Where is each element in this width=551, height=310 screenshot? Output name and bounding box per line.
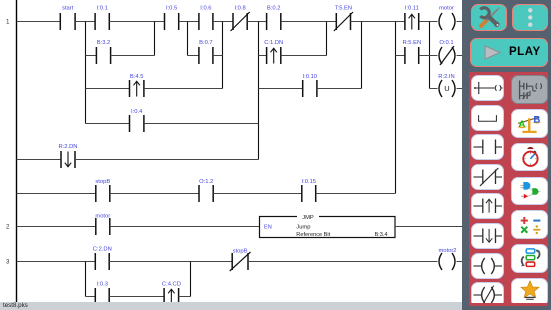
contact stopB rung3 (NC) (230, 252, 251, 271)
wire I:0.4 to riser x258 (144, 123, 259, 125)
contact R:2.DN (negative transition) (61, 151, 75, 168)
left power rail (16, 0, 18, 302)
wire C:1.DN to riser (281, 55, 327, 57)
contact start (NO) (60, 13, 75, 30)
contact B:0.2 (NO) (267, 13, 281, 30)
wire I:0.6 to I:0.8 (213, 21, 233, 23)
button tools (wrench) (471, 4, 507, 32)
contact B:3.2 (NO) (96, 47, 110, 64)
svg-text:I:0.1: I:0.1 (97, 6, 108, 12)
svg-text:O:0.1: O:0.1 (439, 40, 453, 46)
svg-text:R:2.IN: R:2.IN (438, 74, 454, 80)
svg-text:JMP: JMP (302, 215, 314, 221)
contact I:0.10 (NO) (303, 80, 317, 97)
status bar test8.pks (0, 302, 462, 310)
toolbox button new rung (471, 75, 504, 101)
wire I:0.15 to riser x396 (316, 193, 396, 195)
wire I:0.11 to motor coil (419, 21, 438, 23)
contact motor (NO) (96, 218, 110, 235)
instruction box JMP (jump) (260, 214, 396, 238)
toolbox scroll area (469, 72, 549, 306)
svg-text:I:0.4: I:0.4 (131, 109, 143, 115)
toolbox button timer (511, 143, 548, 172)
svg-text:motor: motor (439, 6, 454, 12)
wire motor2 coil to right edge (457, 261, 463, 263)
svg-text:R:2.DN: R:2.DN (58, 144, 77, 150)
svg-text:stopB: stopB (233, 249, 248, 255)
coil motor2 (output) (439, 253, 455, 270)
wire B:0.2 to T:5.EN (281, 21, 337, 23)
wire C:4.CD to riser (179, 296, 191, 298)
wire to R:2.IN unlatch coil (430, 88, 438, 90)
wire junction B:3.2 right riser (154, 22, 156, 56)
wire rail to stopB (17, 193, 96, 195)
svg-text:3: 3 (6, 259, 10, 266)
coil motor (output) (439, 13, 455, 30)
contact I:0.4 (NO) (130, 115, 144, 132)
contact I:0.5 (NO) (165, 13, 179, 30)
wire R:5.EN to riser (419, 55, 430, 57)
toolbox button N contact (471, 223, 504, 249)
wire junction at x430 (rung1 down to unlatch coil) (429, 22, 431, 89)
wire O:1.2 to I:0.15 (213, 193, 302, 195)
contact O:1.2 (NO) (199, 185, 213, 202)
contact I:0.1 (NO) (95, 13, 109, 30)
wire I:0.1 to I:0.5 (109, 21, 164, 23)
wire junction at x396 (rung1 down to stopB line) (395, 22, 397, 194)
svg-text:Reference Bit: Reference Bit (296, 232, 330, 238)
wire to O:0.1 coil (430, 55, 438, 57)
wire B:4.5 to riser x223 (144, 88, 223, 90)
contact T:5.EN (NC) (334, 12, 353, 31)
toolbox button logic gates (511, 177, 548, 206)
wire motor coil to right edge (457, 21, 463, 23)
contact I:0.6 (NO) (199, 13, 213, 30)
contact I:0.3 (NO) (95, 288, 109, 305)
svg-text:I:0.8: I:0.8 (234, 6, 245, 12)
toolbox button sequencer (511, 244, 548, 273)
wire to B:3.2 (86, 55, 97, 57)
contact C:2.DN (NO) (95, 253, 109, 270)
svg-text:start: start (62, 6, 74, 12)
svg-text:I:0.5: I:0.5 (166, 6, 177, 12)
svg-text:R:5.EN: R:5.EN (402, 40, 421, 46)
svg-text:I:0.11: I:0.11 (405, 6, 419, 12)
coil O:0.1 (negated output) (439, 46, 455, 65)
wire to R:5.EN (396, 55, 405, 57)
wire stopB to O:1.2 (110, 193, 199, 195)
svg-text:I:0.6: I:0.6 (200, 6, 211, 12)
svg-text:EN: EN (264, 225, 272, 231)
wire start to I:0.1 (75, 21, 95, 23)
toolbox button new branch (471, 105, 504, 131)
wire motor contact to JMP box (110, 226, 260, 228)
svg-text:C:2.DN: C:2.DN (93, 246, 112, 252)
wire rung2 rail to motor contact (17, 226, 96, 228)
contact B:4.5 (positive transition) (130, 80, 144, 97)
wire I:0.10 to riser (317, 88, 362, 90)
contact I:0.11 (positive transition) (405, 13, 419, 30)
wire rung3 branch left riser (85, 262, 87, 297)
wire rung1 rail to start (17, 21, 61, 23)
button PLAY (470, 38, 548, 67)
svg-text:2: 2 (6, 224, 10, 231)
contact I:0.8 (NC) (231, 12, 250, 31)
svg-text:I:0.10: I:0.10 (303, 74, 318, 80)
wire B:3.2 to riser (111, 55, 155, 57)
contact R:5.EN (NO) (405, 47, 419, 64)
wire to B:4.5 (86, 88, 130, 90)
contact C:4.CD (positive transition) (164, 288, 179, 305)
toolbox button output coil (471, 253, 504, 279)
svg-text:B:3.2: B:3.2 (97, 40, 111, 46)
contact stopB (NO) (96, 185, 110, 202)
wire to C:1.DN (259, 55, 267, 57)
wire junction I:0.10 right riser (361, 22, 363, 89)
wire to I:0.4 (86, 123, 130, 125)
svg-text:motor: motor (95, 213, 110, 219)
toolbox button NO contact (471, 134, 504, 160)
wire stopB to motor2 coil (248, 261, 438, 263)
wire O:0.1 coil to right edge (457, 55, 463, 57)
wire JMP box to right edge (395, 226, 462, 228)
svg-text:B:3.4: B:3.4 (374, 232, 387, 238)
wire to I:0.3 (86, 296, 96, 298)
contact C:1.DN (positive transition) (267, 47, 281, 64)
button menu (3 dots) (512, 4, 549, 32)
svg-text:B: B (533, 115, 540, 126)
svg-text:O:1.2: O:1.2 (199, 179, 213, 185)
wire junction B:0.7 left riser (187, 22, 189, 56)
toolbox button favorites (511, 278, 548, 307)
toolbox button math (511, 210, 548, 239)
toolbox button P contact (471, 193, 504, 219)
svg-text:T:5.EN: T:5.EN (335, 6, 352, 12)
svg-text:A: A (518, 119, 525, 130)
wire rung3 branch right riser (190, 262, 192, 297)
svg-text:B:0.7: B:0.7 (199, 40, 213, 46)
svg-text:C:1.DN: C:1.DN (264, 40, 283, 46)
toolbox button compare (511, 109, 548, 138)
right side panel (462, 0, 551, 310)
svg-text:I:0.3: I:0.3 (97, 282, 108, 288)
svg-text:Jump: Jump (296, 225, 310, 231)
wire T:5.EN to I:0.11 (351, 21, 405, 23)
contact B:0.7 (NO) (199, 47, 213, 64)
contact I:0.15 (NO) (302, 185, 316, 202)
wire rail to R:2.DN (17, 159, 62, 161)
wire junction at x258 (rung1 down to R:2.DN level) (258, 22, 260, 160)
svg-text:I:0.15: I:0.15 (302, 179, 317, 185)
svg-text:U: U (444, 84, 449, 93)
wire junction down at x86 (rung1 to I:0.4 level) (85, 22, 87, 124)
wire to B:0.7 (188, 55, 199, 57)
wire to I:0.10 (259, 88, 303, 90)
svg-text:B:4.5: B:4.5 (130, 74, 144, 80)
wire junction at x223 (rung1 to B:4.5 level) (222, 22, 224, 89)
toolbox button negated coil (471, 282, 504, 308)
wire R:2.DN to riser x258 (75, 159, 259, 161)
svg-text:1: 1 (6, 19, 10, 26)
svg-text:motor2: motor2 (438, 248, 456, 254)
wire rung3 rail to C:2.DN (17, 261, 96, 263)
toolbox button network/program (selected) (511, 75, 548, 104)
svg-text:B:0.2: B:0.2 (267, 6, 281, 12)
wire R:2.IN coil to right edge (457, 88, 463, 90)
svg-text:stopB: stopB (95, 179, 110, 185)
wire junction C:1.DN right riser (326, 22, 328, 56)
wire I:0.5 to I:0.6 (179, 21, 199, 23)
wire B:0.7 to riser (213, 55, 223, 57)
svg-text:C:4.CD: C:4.CD (162, 282, 181, 288)
toolbox button NC contact (471, 164, 504, 190)
coil R:2.IN (unlatch) (439, 80, 455, 97)
wire I:0.3 to C:4.CD (109, 296, 164, 298)
wire C:2.DN to stopB (109, 261, 232, 263)
wire I:0.8 to B:0.2 (247, 21, 266, 23)
